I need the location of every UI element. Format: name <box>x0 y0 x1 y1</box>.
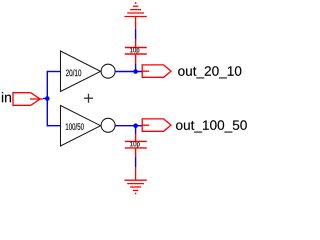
capacitor C2 10p <box>125 134 147 157</box>
value label 10p (C1) <box>130 47 139 54</box>
pin out_20_10 (opin pentagon) <box>142 65 171 77</box>
origin marker + <box>84 94 93 103</box>
pin out_100_50 (opin pentagon) <box>142 119 171 131</box>
wire cap to node out_20_10 <box>135 64 137 72</box>
pin in (ipin pentagon with arrow) <box>13 93 43 106</box>
node junction out_20_10 <box>133 69 138 74</box>
node junction in <box>45 96 50 101</box>
wire U2 output to node <box>115 125 142 127</box>
label in <box>2 92 11 102</box>
inverter U1 triangle <box>61 51 116 92</box>
capacitor C1 10p <box>125 39 147 64</box>
wire node to cap C2 <box>135 126 137 134</box>
ground GND top (flipped) <box>124 2 146 29</box>
value label 20/10 (U1) <box>66 69 81 76</box>
value label 10p (C2) <box>130 141 140 148</box>
wire U1 output to node <box>115 71 142 73</box>
node junction out_100_50 <box>133 123 138 128</box>
inverter U2 triangle <box>61 106 116 147</box>
wire input net vertical <box>43 71 61 127</box>
wire net vdd-cap top <box>135 29 137 39</box>
value label 100/50 (U2) <box>66 123 84 130</box>
label out_100_50 <box>176 120 247 132</box>
ground GND bottom <box>124 167 146 194</box>
label out_20_10 <box>178 66 241 78</box>
wire cap C2 to ground <box>135 157 137 167</box>
